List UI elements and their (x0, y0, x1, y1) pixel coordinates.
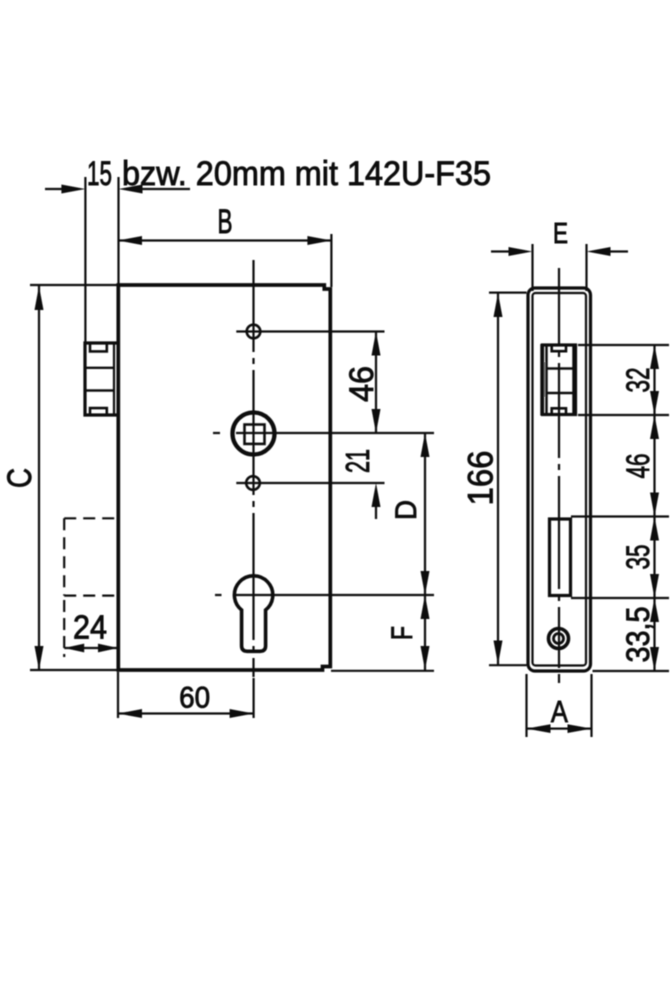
arrow 46 top (650, 415, 659, 439)
latch front divider lower (546, 392, 575, 395)
dimension F top arrow (421, 595, 430, 619)
tick 166 top (489, 292, 527, 294)
dimension 24 left arrow (64, 644, 84, 653)
extension line body left edge up (117, 177, 119, 285)
latch side divider upper (86, 367, 113, 369)
dimension 15/20 left arrow (61, 185, 85, 194)
svg-text:F: F (386, 626, 419, 640)
lower hole axis line (236, 482, 384, 484)
deadbolt opening front view (550, 519, 571, 596)
latch side inner vertical (113, 344, 115, 414)
dimension D top arrow (421, 433, 430, 457)
svg-text:B: B (218, 203, 233, 241)
right dimension column line (653, 345, 655, 671)
body bottom edge extension right (331, 670, 434, 672)
svg-text:A: A (551, 694, 568, 729)
centerline vertical left view (252, 260, 254, 677)
faceplate outer outline (528, 288, 591, 671)
latch front inner vertical left (545, 346, 548, 414)
follower axis dash left (213, 432, 220, 434)
dimension C bottom arrow (35, 646, 44, 670)
dimension D line (424, 433, 426, 595)
arrow 46 bottom (650, 493, 659, 517)
latch side top notch (90, 343, 107, 352)
dimension B right arrow (307, 236, 331, 245)
tick latch top (578, 344, 669, 346)
arrow 35 bottom (650, 574, 659, 598)
svg-text:D: D (390, 500, 423, 520)
extension line latch face (84, 177, 86, 342)
dimension 60 right arrow (230, 709, 254, 718)
tick 166 bottom (489, 664, 527, 666)
follower axis line (236, 432, 434, 434)
svg-text:bzw. 20mm mit 142U-F35: bzw. 20mm mit 142U-F35 (122, 155, 491, 193)
screw hole inner (554, 634, 564, 644)
dimension D bottom arrow (421, 571, 430, 595)
faceplate inner outline (533, 293, 587, 666)
dimension F line (424, 595, 426, 670)
dimension F bottom arrow (421, 646, 430, 670)
top hole axis line (236, 330, 384, 332)
tick plate bottom (593, 670, 670, 672)
lower small hole (246, 476, 260, 490)
dimension 15/20 line left tail (45, 188, 62, 190)
dimension 46 line (375, 332, 377, 434)
latch bevel grey line (544, 362, 546, 397)
latch side divider lower (86, 389, 113, 391)
tick deadbolt top (571, 515, 669, 517)
dimension 24 right arrow (98, 644, 118, 653)
dimension B left arrow (118, 236, 142, 245)
latch front top notch (552, 345, 566, 352)
dimension C top arrow (35, 286, 44, 310)
svg-text:32: 32 (620, 368, 656, 393)
dimension A right arrow (568, 724, 592, 733)
top hole (247, 325, 261, 339)
lock case body outline (118, 285, 330, 670)
dimension B line (118, 239, 331, 241)
dimension A left arrow (527, 724, 551, 733)
latch side bottom notch (90, 408, 107, 415)
dimension 15/20 right arrow (119, 185, 143, 194)
extension A right (590, 674, 592, 737)
latch bolt side view outer (83, 341, 117, 416)
svg-text:35: 35 (620, 545, 656, 570)
arrow 32 bottom (650, 391, 659, 415)
svg-text:33,5: 33,5 (620, 607, 656, 663)
body top edge extension left (30, 284, 118, 286)
latch front bottom notch (552, 408, 566, 415)
dimension 60 center extension (253, 678, 255, 718)
latch front inner vertical right (572, 346, 575, 414)
dimension 166 top arrow (494, 293, 503, 317)
hidden chamber dashed box bottom (64, 594, 117, 596)
arrow 35 top (650, 517, 659, 541)
latch opening front view (543, 345, 576, 415)
extension E right (585, 244, 587, 291)
cylinder axis line (236, 594, 434, 596)
dimension 166 line (497, 293, 499, 665)
dimension 166 bottom arrow (494, 641, 503, 665)
extension line body right edge up (330, 234, 332, 287)
dimension 21 bottom arrow (372, 483, 381, 507)
hidden chamber dashed box left (63, 518, 65, 595)
dimension 60 line (118, 712, 254, 714)
follower circle (233, 413, 275, 455)
arrow 33.5 top (650, 598, 659, 622)
faceplate centerline (558, 268, 560, 683)
tick deadbolt bottom (571, 597, 669, 599)
dimension 24 extension line (63, 600, 65, 657)
follower square spindle hole (245, 425, 265, 444)
dimension 60 left extension (117, 672, 119, 718)
dimension 46 bottom arrow (372, 409, 381, 433)
euro cylinder keyhole outline (234, 576, 272, 651)
cylinder axis dash left (215, 594, 222, 596)
screw hole outer (549, 629, 569, 649)
dimension 21 tail (375, 505, 377, 519)
dimension E left arrow (509, 247, 533, 256)
svg-text:24: 24 (73, 609, 107, 646)
tick latch bottom (578, 414, 669, 416)
svg-text:15: 15 (87, 155, 112, 193)
dimension 24 line (64, 647, 118, 649)
extension E left (531, 244, 533, 291)
dimension 60 left arrow (118, 709, 142, 718)
latch opening left thick edge (540, 344, 543, 416)
dimension C line (38, 286, 40, 670)
svg-text:E: E (553, 218, 568, 250)
body bottom edge extension left (30, 669, 118, 671)
extension A left (525, 674, 527, 737)
dimension A line (527, 727, 592, 729)
hidden chamber dashed box top (64, 517, 117, 519)
dimension E left tail (491, 250, 509, 252)
latch front divider upper (546, 367, 575, 370)
dimension E right tail (610, 250, 628, 252)
svg-text:C: C (1, 468, 39, 488)
dimension 46 top arrow (372, 332, 381, 356)
dimension 15/20 line right tail (142, 188, 190, 190)
arrow 32 top (650, 345, 659, 369)
dimension E right arrow (587, 247, 611, 256)
svg-text:21: 21 (339, 449, 376, 473)
arrow 33.5 bottom (650, 647, 659, 671)
svg-text:60: 60 (179, 682, 210, 715)
svg-text:46: 46 (620, 454, 656, 479)
svg-text:166: 166 (461, 451, 500, 506)
